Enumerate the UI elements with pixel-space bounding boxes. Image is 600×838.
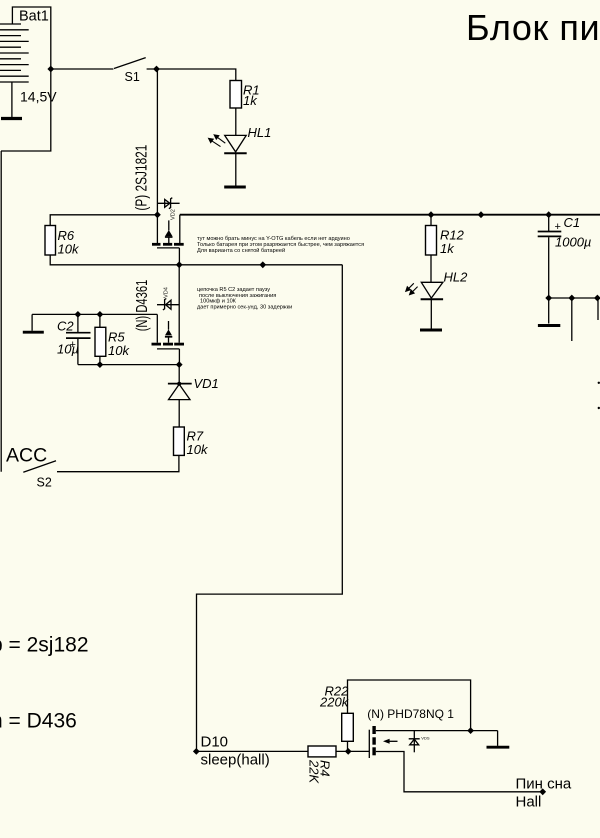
svg-text:22K: 22K bbox=[307, 759, 322, 784]
svg-text:220k: 220k bbox=[319, 695, 350, 710]
svg-text:дает примерно сек-унд, 30 заде: дает примерно сек-унд, 30 задержки bbox=[197, 305, 292, 311]
body diode of N-FET bar bbox=[165, 336, 172, 338]
wire R1 to HL1 bbox=[235, 108, 237, 135]
wire HL2 to ground bbox=[430, 299, 432, 328]
wire S1 to R1 corner bbox=[147, 69, 236, 81]
LED HL1 triangle bbox=[225, 135, 247, 152]
capacitor C1 plates bbox=[538, 231, 562, 233]
svg-text:VDS: VDS bbox=[421, 736, 430, 741]
svg-text:Для варианта со снятой батарее: Для варианта со снятой батареей bbox=[197, 247, 285, 254]
resistor R5 bottom lead bbox=[99, 356, 101, 364]
node ground rail edge junction bbox=[594, 295, 600, 302]
node C1 bottom junction bbox=[545, 295, 552, 302]
LED HL1 emission arrows bbox=[209, 135, 226, 147]
svg-text:VD2: VD2 bbox=[171, 209, 177, 220]
battery Bat1 box outline bbox=[1, 7, 51, 151]
svg-text:14,5V: 14,5V bbox=[20, 89, 57, 105]
wire N-FET source stub up to RC top wire bbox=[156, 314, 158, 342]
capacitor C2 top lead bbox=[77, 314, 79, 332]
svg-text:Блок питания: Блок питания bbox=[466, 7, 600, 48]
wire P-FET gate down to gate node bbox=[178, 248, 180, 265]
LED HL2 emission arrows bbox=[406, 283, 418, 294]
diode VD1 top lead bbox=[178, 365, 180, 384]
svg-text:10k: 10k bbox=[58, 242, 80, 257]
wire battery minus down the left edge bbox=[0, 151, 2, 472]
LED HL1 cathode bar bbox=[224, 152, 247, 154]
diode VD1 node dot bbox=[177, 382, 181, 386]
body diode lower stem bbox=[168, 238, 170, 244]
svg-text:S2: S2 bbox=[37, 476, 52, 490]
svg-text:+: + bbox=[555, 221, 561, 233]
svg-text:10k: 10k bbox=[108, 343, 130, 358]
wire R12 to HL2 bbox=[430, 255, 432, 282]
node gate wire mid junction bbox=[259, 261, 266, 268]
body diode of N-FET lower stem bbox=[168, 337, 170, 342]
zener line of N-FET bbox=[157, 304, 179, 306]
LED HL2 cathode bar bbox=[421, 298, 444, 300]
svg-text:HL1: HL1 bbox=[248, 125, 272, 140]
body diode VDS cathode bar bbox=[409, 738, 420, 740]
svg-text:VD1: VD1 bbox=[194, 376, 219, 391]
svg-text:(P) 2SJ1821: (P) 2SJ1821 bbox=[134, 145, 151, 211]
wire gate node down to N-FET drain dash bbox=[178, 265, 180, 343]
body diode of P-FET filled triangle bbox=[165, 230, 173, 236]
node D10 junction bbox=[193, 748, 200, 755]
wire C1 ground stub bbox=[548, 298, 550, 324]
node R6/source junction bbox=[154, 211, 161, 218]
ground below HL2 bbox=[420, 329, 442, 332]
node output pin junction bbox=[539, 788, 546, 795]
svg-text:S1: S1 bbox=[125, 70, 140, 84]
body diode of N-FET stem bbox=[168, 321, 170, 330]
battery minus terminal wire bbox=[11, 82, 13, 117]
ground bar right of PHD bbox=[487, 746, 510, 749]
svg-text:p = 2sj182: p = 2sj182 bbox=[0, 634, 89, 657]
wire R7 bottom to S2 wire bbox=[57, 455, 179, 471]
P-FET channel dashes bbox=[152, 243, 184, 246]
svg-text:(N) PHD78NQ 1: (N) PHD78NQ 1 bbox=[367, 707, 454, 721]
body diode VDS triangle bbox=[410, 739, 419, 745]
svg-text:ACC: ACC bbox=[6, 445, 47, 467]
battery cell plates bbox=[0, 24, 29, 82]
mark at right edge upper bbox=[598, 382, 600, 384]
N-FET PHD drain tap wire bbox=[376, 730, 498, 732]
ground stub right of PHD bbox=[497, 731, 499, 746]
diode VD1 triangle bbox=[169, 384, 191, 399]
annotation text middle bbox=[197, 287, 292, 310]
node drain/R22 loop junction bbox=[467, 727, 474, 734]
resistor R12 top lead bbox=[430, 215, 432, 226]
resistor R1 bbox=[230, 81, 242, 109]
wire R6 top to source node bbox=[50, 215, 157, 226]
switch S1 lever bbox=[114, 58, 146, 69]
wire HL1 to ground bbox=[235, 153, 237, 185]
wire R6 bottom to gate wire bbox=[50, 255, 342, 265]
mark at right edge lower bbox=[598, 407, 600, 409]
svg-text:Hall: Hall bbox=[516, 794, 542, 811]
svg-text:VD4: VD4 bbox=[164, 287, 170, 298]
resistor R5 bbox=[95, 327, 106, 356]
resistor R12 bbox=[426, 226, 437, 256]
svg-text:1000µ: 1000µ bbox=[555, 235, 591, 250]
wire stub from ground rail bbox=[571, 298, 573, 341]
zener diode VD2 cathode bar bbox=[169, 198, 172, 209]
svg-text:10µ: 10µ bbox=[57, 342, 79, 357]
zener line gate-source of P-FET bbox=[157, 202, 179, 204]
svg-text:(N) D4361: (N) D4361 bbox=[134, 280, 151, 332]
ground bar left bbox=[23, 331, 44, 334]
wire D10 to R4 bbox=[197, 750, 309, 752]
node output rail junction mid bbox=[478, 211, 485, 218]
node output rail junction R12 bbox=[428, 211, 435, 218]
ground stub at RC rail bbox=[31, 314, 33, 330]
wire S1 node down to P-FET source bbox=[156, 69, 158, 243]
zener diode VD4 triangle bbox=[166, 300, 171, 309]
svg-text:D10: D10 bbox=[201, 734, 229, 751]
N-FET channel dashes bbox=[152, 343, 185, 346]
node R5 top junction bbox=[97, 311, 104, 318]
svg-text:C1: C1 bbox=[564, 215, 581, 230]
diode VD1 bottom lead bbox=[178, 400, 180, 427]
capacitor C1 top lead bbox=[548, 215, 550, 231]
node ground rail mid junction bbox=[568, 295, 575, 302]
node S1 output junction bbox=[153, 66, 160, 73]
wire N-FET gate down to RC node bbox=[178, 349, 180, 365]
resistor R7 bbox=[174, 427, 185, 455]
body diode of P-FET stem bbox=[168, 220, 170, 230]
battery minus terminal bar bbox=[1, 117, 22, 120]
N-FET gate line bbox=[157, 348, 179, 350]
node R22 bottom junction bbox=[345, 748, 352, 755]
wire P-FET drain up to output wire bbox=[179, 215, 181, 243]
N-FET PHD channel dashes bbox=[372, 726, 375, 755]
zener diode VD4 cathode bar bbox=[163, 299, 166, 310]
wire R4 to N-FET gate bbox=[336, 750, 369, 752]
svg-text:1k: 1k bbox=[440, 241, 455, 256]
capacitor C1 bottom lead bbox=[548, 237, 550, 298]
wire gate net down right side bbox=[197, 265, 343, 752]
node output rail junction C1 bbox=[545, 211, 552, 218]
svg-text:Bat1: Bat1 bbox=[19, 9, 49, 25]
wire RC bottom rail bbox=[78, 364, 179, 366]
node gate wire / N-FET drain junction bbox=[176, 261, 183, 268]
zener diode VD2 triangle bbox=[165, 199, 170, 207]
resistor R5 top lead bbox=[99, 314, 101, 327]
resistor R6 bbox=[45, 226, 56, 256]
svg-text:100мкф и 10К: 100мкф и 10К bbox=[200, 298, 237, 304]
wire battery to S1 bbox=[51, 68, 114, 70]
N-FET PHD body arrow bbox=[390, 740, 398, 742]
capacitor C2 plates bbox=[66, 332, 91, 334]
resistor R22 bbox=[342, 713, 354, 741]
ground below HL1 bbox=[224, 186, 246, 189]
node battery plus junction bbox=[47, 66, 54, 73]
svg-text:n = D436: n = D436 bbox=[0, 710, 77, 733]
LED HL2 triangle bbox=[421, 282, 443, 298]
N-FET PHD gate line bbox=[368, 730, 370, 758]
body diode VDS lead bbox=[413, 731, 415, 753]
node C2 top junction bbox=[75, 311, 82, 318]
P-FET gate line bbox=[157, 247, 179, 249]
svg-text:10k: 10k bbox=[187, 442, 209, 457]
svg-text:sleep(hall): sleep(hall) bbox=[201, 752, 270, 769]
node R5 bottom junction bbox=[97, 361, 104, 368]
wire output drain rail bbox=[180, 214, 600, 216]
N-FET PHD source tap wire bbox=[376, 752, 543, 792]
resistor R4 bbox=[308, 746, 336, 757]
resistor R22 bottom lead bbox=[347, 741, 349, 751]
wire ground rail right bbox=[549, 297, 598, 299]
diode VD1 cathode bar bbox=[168, 383, 192, 385]
wire R22 top loop to drain bbox=[348, 680, 471, 731]
body diode of P-FET bar bbox=[165, 236, 173, 238]
capacitor C2 bottom lead bbox=[77, 339, 79, 365]
annotation text top bbox=[197, 236, 364, 254]
wire stub at right edge bbox=[597, 298, 599, 320]
switch S2 lever bbox=[23, 461, 56, 473]
body diode of N-FET filled triangle bbox=[165, 329, 172, 335]
svg-text:HL2: HL2 bbox=[444, 270, 469, 285]
svg-text:C2: C2 bbox=[57, 319, 74, 334]
node RC bottom / VD1 junction bbox=[176, 361, 183, 368]
ground bar below C1 bbox=[538, 324, 560, 327]
svg-text:Пин сна: Пин сна bbox=[516, 776, 572, 793]
svg-text:1k: 1k bbox=[243, 93, 258, 108]
wire RC top rail bbox=[32, 313, 157, 315]
